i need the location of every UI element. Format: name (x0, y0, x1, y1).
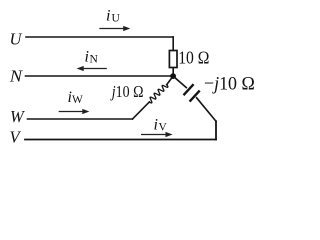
value label -j10 ohm (204, 73, 255, 95)
capacitor -j10ohm plate 1 (184, 84, 194, 95)
wire node to capacitor (173, 76, 186, 88)
svg-text:V: V (10, 128, 22, 147)
wire N line (26, 75, 174, 77)
wire resistor bottom to node (172, 68, 174, 77)
wire V line (25, 139, 216, 141)
junction node dot (170, 73, 176, 79)
svg-text:N: N (90, 54, 99, 66)
wire U to resistor top (172, 37, 174, 51)
label N (9, 66, 24, 85)
wire W diagonal to inductor (133, 102, 150, 119)
svg-text:i: i (85, 49, 89, 66)
arrow iW (59, 109, 90, 114)
svg-text:U: U (10, 30, 23, 49)
wire U line (26, 36, 173, 38)
svg-text:−j10 Ω: −j10 Ω (204, 73, 255, 95)
svg-text:N: N (9, 66, 24, 85)
svg-text:i: i (154, 117, 158, 134)
svg-text:V: V (159, 122, 168, 134)
value label j10 ohm (110, 83, 143, 102)
wire W line (28, 118, 133, 120)
capacitor -j10ohm plate 2 (190, 91, 200, 102)
arrow iN (77, 66, 107, 71)
arrow iU (99, 26, 130, 31)
svg-text:10 Ω: 10 Ω (178, 48, 209, 68)
arrow iV (141, 132, 173, 137)
svg-text:i: i (106, 8, 110, 25)
svg-text:W: W (10, 107, 25, 126)
wire corner down to V line (215, 121, 217, 139)
value label 10 ohm (178, 48, 209, 68)
svg-text:U: U (112, 13, 121, 25)
wire capacitor to corner (197, 98, 216, 122)
svg-text:W: W (72, 94, 83, 106)
wire inductor to node (167, 76, 173, 84)
inductor j10ohm squiggle (149, 84, 168, 103)
svg-text:j10 Ω: j10 Ω (110, 83, 143, 102)
resistor R 10ohm box (169, 51, 177, 68)
